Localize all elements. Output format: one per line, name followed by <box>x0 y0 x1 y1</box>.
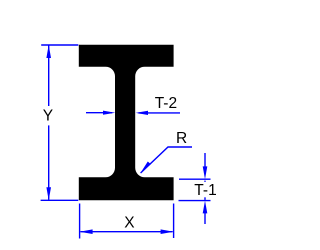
Y dimension line upper segment <box>48 46 50 107</box>
T-2 left arrow line <box>86 112 112 114</box>
Y dimension bottom extension line <box>41 199 79 201</box>
svg-text:Y: Y <box>43 108 53 125</box>
T-1 upper arrowhead (points down) <box>203 166 208 179</box>
svg-text:T-2: T-2 <box>155 95 177 112</box>
R leader line <box>141 147 192 173</box>
svg-text:T-1: T-1 <box>194 182 216 199</box>
X left extension line <box>79 204 81 239</box>
X right extension line <box>173 204 175 239</box>
T-1 top extension line <box>179 178 211 180</box>
svg-text:X: X <box>124 215 135 232</box>
Y bottom arrowhead <box>46 187 51 200</box>
I-beam cross-section body <box>79 45 174 201</box>
T-2 left arrowhead <box>103 111 115 115</box>
T-1 bottom extension line <box>179 200 211 202</box>
T-1 lower arrow line <box>204 213 206 224</box>
T-1 line stub above text <box>204 181 206 182</box>
X right arrowhead <box>161 229 174 234</box>
T-1 lower arrowhead (points up) <box>203 201 208 214</box>
T-2 right arrowhead <box>136 111 148 115</box>
T-2 right arrow line <box>139 112 181 114</box>
Y dimension line lower segment <box>48 125 50 199</box>
X dimension line <box>81 231 173 233</box>
T-1 line stub below text <box>204 197 206 200</box>
X left arrowhead <box>80 229 93 234</box>
T-1 upper arrow line <box>204 153 206 167</box>
Y top arrowhead <box>46 45 51 58</box>
svg-text:R: R <box>176 130 187 147</box>
R leader arrowhead <box>140 162 151 174</box>
Y dimension top extension line <box>41 44 78 46</box>
